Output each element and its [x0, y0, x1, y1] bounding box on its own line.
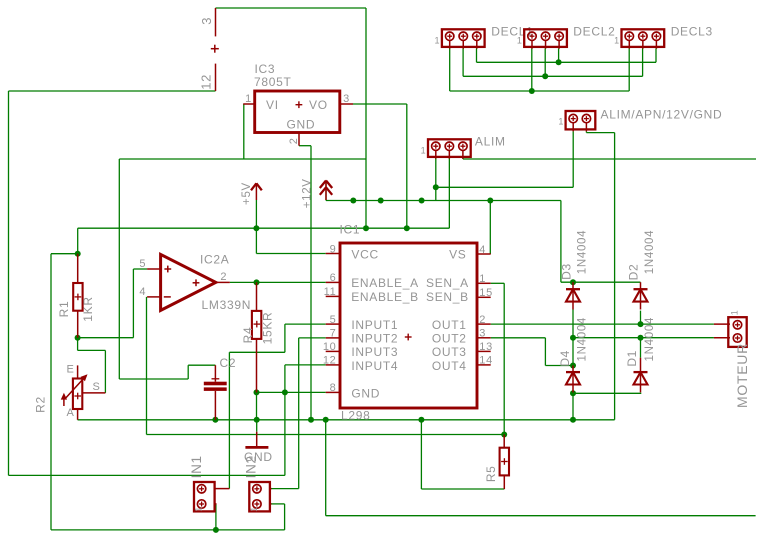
svg-text:13: 13	[479, 341, 493, 353]
svg-text:1: 1	[558, 117, 564, 127]
svg-text:12: 12	[323, 355, 337, 367]
svg-text:INPUT3: INPUT3	[351, 345, 398, 359]
svg-text:2: 2	[220, 271, 227, 283]
svg-text:1: 1	[435, 35, 441, 45]
svg-text:R1: R1	[57, 301, 71, 318]
svg-text:9: 9	[330, 243, 337, 255]
svg-text:OUT1: OUT1	[432, 318, 467, 332]
svg-text:S: S	[92, 381, 100, 393]
svg-text:ENABLE_B: ENABLE_B	[351, 290, 419, 304]
svg-text:14: 14	[479, 355, 493, 367]
svg-text:IC3: IC3	[255, 62, 276, 76]
svg-text:R2: R2	[34, 396, 48, 413]
svg-text:1KR: 1KR	[81, 296, 95, 321]
svg-text:+5V: +5V	[241, 182, 253, 205]
svg-text:1N4004: 1N4004	[644, 230, 656, 274]
svg-text:7: 7	[330, 328, 337, 340]
svg-text:3: 3	[479, 328, 486, 340]
svg-text:11: 11	[324, 286, 337, 298]
svg-text:MOTEUR: MOTEUR	[734, 343, 750, 408]
svg-text:8: 8	[330, 382, 337, 394]
svg-text:VO: VO	[309, 98, 328, 112]
svg-text:INPUT2: INPUT2	[351, 332, 398, 346]
svg-text:3: 3	[343, 93, 350, 105]
svg-text:7805T: 7805T	[254, 75, 292, 89]
svg-text:IC2A: IC2A	[200, 253, 229, 267]
svg-text:L298: L298	[341, 409, 371, 423]
svg-text:A: A	[66, 407, 74, 419]
svg-text:IC1: IC1	[340, 222, 361, 236]
svg-text:D3: D3	[560, 263, 574, 280]
svg-text:1: 1	[249, 506, 259, 512]
svg-text:DECL3: DECL3	[671, 24, 713, 38]
svg-text:5: 5	[139, 258, 146, 270]
svg-text:15KR: 15KR	[261, 312, 275, 345]
svg-text:4: 4	[139, 286, 146, 298]
svg-text:1: 1	[194, 506, 204, 512]
svg-text:10: 10	[323, 341, 337, 353]
svg-text:2: 2	[479, 314, 486, 326]
svg-text:ENABLE_A: ENABLE_A	[351, 276, 419, 290]
svg-text:ALIM/APN/12V/GND: ALIM/APN/12V/GND	[601, 107, 723, 121]
svg-text:1: 1	[517, 35, 523, 45]
svg-text:IN2: IN2	[244, 455, 259, 478]
svg-text:GND: GND	[351, 386, 380, 400]
svg-text:VCC: VCC	[351, 247, 378, 261]
svg-text:GND: GND	[287, 117, 316, 131]
svg-text:6: 6	[330, 272, 337, 284]
svg-text:E: E	[66, 364, 74, 376]
svg-text:1: 1	[479, 273, 486, 285]
svg-text:DECL2: DECL2	[573, 24, 615, 38]
svg-text:1: 1	[614, 35, 620, 45]
svg-text:1: 1	[245, 93, 252, 105]
svg-text:D2: D2	[627, 264, 641, 281]
svg-text:C2: C2	[220, 356, 237, 370]
svg-text:12: 12	[199, 74, 214, 90]
svg-text:D4: D4	[558, 350, 572, 367]
svg-text:1N4004: 1N4004	[577, 230, 589, 274]
svg-text:15: 15	[479, 287, 493, 299]
svg-text:LM339N: LM339N	[202, 298, 252, 312]
svg-text:1N4004: 1N4004	[644, 317, 656, 361]
svg-text:1: 1	[421, 145, 427, 155]
svg-text:OUT2: OUT2	[432, 332, 467, 346]
svg-text:3: 3	[199, 17, 214, 25]
svg-text:1N4004: 1N4004	[577, 317, 589, 361]
svg-text:ALIM: ALIM	[475, 134, 506, 148]
svg-text:4: 4	[479, 244, 486, 256]
svg-text:INPUT1: INPUT1	[351, 318, 398, 332]
svg-text:2: 2	[288, 137, 300, 144]
svg-text:VI: VI	[266, 98, 279, 112]
svg-text:D1: D1	[625, 350, 639, 367]
svg-text:IN1: IN1	[189, 455, 204, 478]
svg-text:OUT3: OUT3	[432, 345, 467, 359]
svg-text:5: 5	[330, 314, 337, 326]
svg-text:R4: R4	[241, 327, 255, 344]
svg-text:OUT4: OUT4	[432, 359, 467, 373]
svg-text:VS: VS	[449, 247, 466, 261]
svg-text:R5: R5	[484, 465, 498, 482]
svg-text:+12V: +12V	[302, 178, 314, 208]
svg-text:SEN_A: SEN_A	[426, 276, 469, 290]
svg-text:INPUT4: INPUT4	[351, 359, 398, 373]
svg-text:SEN_B: SEN_B	[426, 290, 469, 304]
svg-text:1: 1	[730, 310, 740, 316]
